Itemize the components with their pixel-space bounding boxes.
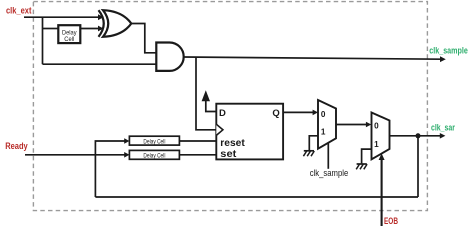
AND gate U2: [156, 43, 183, 71]
wire DC3 to set pin: [179, 154, 216, 156]
ground GND2: [357, 163, 367, 165]
wire clk_ext branch down: [42, 17, 44, 64]
FF clock triangle: [216, 124, 223, 135]
svg-text:0: 0: [374, 121, 379, 130]
svg-text:clk_sample: clk_sample: [429, 46, 468, 56]
wire feedback riser to delay cell DC2: [95, 141, 125, 197]
wire Q to mux M1 input 0: [283, 111, 314, 113]
wire lower rail to AND input B: [43, 63, 157, 65]
wire AND output down to FF clock: [196, 57, 216, 130]
svg-text:set: set: [220, 149, 237, 160]
wire mux M2 input 1 to ground: [362, 149, 372, 163]
svg-text:Cell: Cell: [64, 36, 74, 43]
wire clk_ext to XOR input A: [24, 16, 100, 18]
wire mux M1 output to mux M2 input 0: [336, 124, 367, 126]
svg-text:1: 1: [374, 140, 379, 149]
wire mux M1 select: [327, 143, 329, 169]
svg-text:1: 1: [321, 128, 326, 137]
wire branch to delay cell DC1: [43, 28, 59, 30]
svg-text:Delay Cell: Delay Cell: [143, 138, 165, 145]
svg-text:EOB: EOB: [384, 216, 398, 226]
svg-text:0: 0: [321, 110, 326, 119]
D flip-flop U3: [216, 104, 283, 160]
delay cell DC2: [129, 136, 179, 145]
mux M2: [372, 113, 390, 160]
delay cell DC3: [129, 150, 179, 159]
wire mux M1 input 1 to ground: [309, 136, 318, 150]
wire EOB to mux M2 select: [381, 159, 383, 226]
wire bottom feedback rail: [95, 196, 418, 198]
wire XOR output to AND input A: [131, 24, 156, 53]
wire clk_sar feedback down: [417, 136, 419, 197]
svg-text:clk_sample: clk_sample: [310, 168, 349, 178]
wire DC1 to XOR input B: [80, 28, 99, 30]
svg-text:clk_ext: clk_ext: [6, 5, 32, 15]
svg-text:Delay Cell: Delay Cell: [143, 153, 165, 160]
svg-text:reset: reset: [220, 138, 245, 149]
wire Ready to delay cell DC3: [25, 154, 126, 156]
svg-text:D: D: [219, 108, 226, 119]
XOR gate U1: [99, 10, 104, 37]
ground GND1: [304, 150, 314, 152]
mux M1: [318, 100, 336, 149]
dashed block boundary: [33, 2, 427, 211]
supply up-arrow at D input: [206, 100, 217, 112]
svg-text:Q: Q: [272, 108, 279, 119]
wire DC2 to reset pin: [179, 140, 216, 142]
svg-text:clk_sar: clk_sar: [431, 123, 455, 133]
junction dot on clk_sar net: [416, 133, 421, 138]
svg-text:Ready: Ready: [5, 141, 28, 151]
wire AND output to clk_sample port: [184, 57, 442, 59]
wire mux M2 output to clk_sar port: [390, 135, 442, 137]
delay cell DC1: [58, 25, 80, 43]
